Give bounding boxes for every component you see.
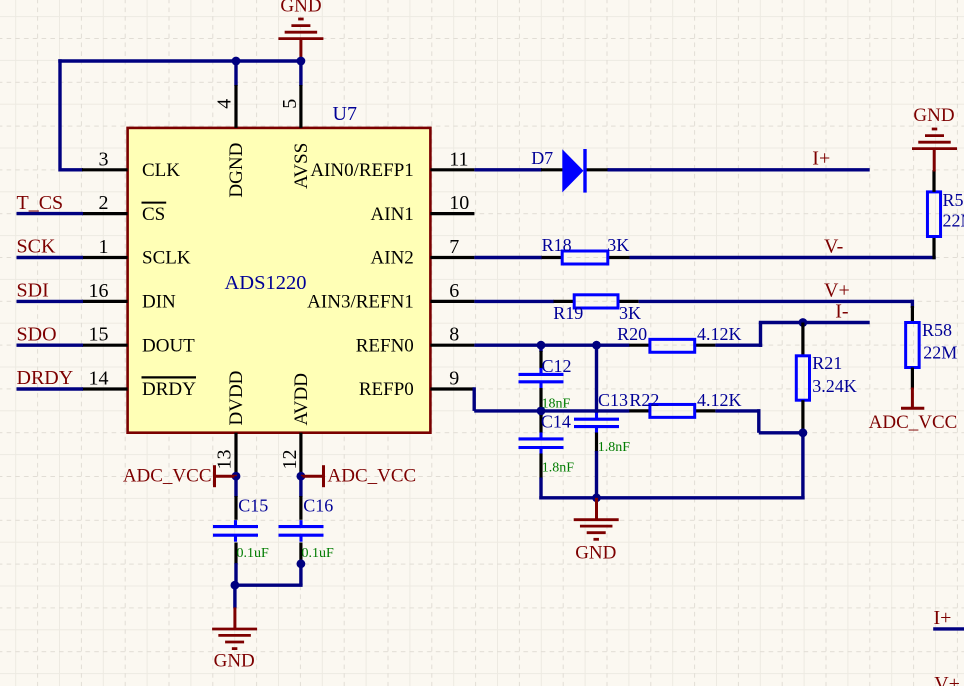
- pin 4 DGND: [234, 85, 237, 128]
- wire: [608, 168, 870, 171]
- wire: [911, 300, 914, 308]
- svg-text:C16: C16: [303, 496, 333, 516]
- svg-text:GND: GND: [913, 105, 954, 126]
- resistor R57 22M right edge: [932, 237, 935, 260]
- svg-text:ADS1220: ADS1220: [225, 272, 307, 294]
- pin name overline DRDY: [142, 376, 197, 378]
- svg-text:6: 6: [449, 280, 459, 302]
- node junction pin5: [297, 57, 306, 66]
- node junction R21 top: [799, 318, 808, 327]
- resistor R19 3K: [554, 300, 575, 303]
- wire: [630, 256, 936, 259]
- capacitor C14 1.8nF: [539, 411, 542, 416]
- node junction GND left: [231, 581, 240, 590]
- wire: [759, 431, 805, 434]
- svg-text:10: 10: [449, 192, 469, 214]
- svg-text:ADC_VCC: ADC_VCC: [123, 465, 212, 486]
- svg-text:11: 11: [449, 148, 468, 170]
- pin 16 DIN: [82, 300, 128, 303]
- svg-text:GND: GND: [575, 543, 616, 564]
- svg-text:AIN3/REFN1: AIN3/REFN1: [307, 292, 414, 313]
- pin 14 DRDY: [82, 387, 128, 390]
- svg-text:DRDY: DRDY: [142, 379, 196, 400]
- wire: [801, 433, 804, 500]
- svg-text:R18: R18: [542, 235, 572, 255]
- resistor R22 4.12K: [629, 409, 650, 412]
- svg-text:REFP0: REFP0: [359, 379, 414, 400]
- wire: [17, 300, 84, 303]
- pin 2 CS: [82, 212, 128, 215]
- svg-text:I+: I+: [812, 147, 830, 169]
- wire: [17, 344, 84, 347]
- svg-text:18nF: 18nF: [542, 396, 571, 411]
- resistor R18 3K: [542, 256, 563, 259]
- pin 6 AIN3/REFN1: [430, 300, 474, 303]
- wire: [473, 387, 476, 411]
- svg-text:AIN1: AIN1: [371, 204, 414, 225]
- svg-text:ADC_VCC: ADC_VCC: [869, 412, 958, 433]
- wire: [299, 564, 302, 585]
- wire: [17, 387, 84, 390]
- svg-text:SCLK: SCLK: [142, 248, 191, 269]
- ground: [595, 498, 598, 521]
- svg-text:1.8nF: 1.8nF: [542, 460, 575, 475]
- wire: [933, 627, 964, 630]
- wire: [58, 59, 61, 171]
- node junction C14 top: [537, 407, 546, 416]
- svg-text:T_CS: T_CS: [17, 192, 64, 214]
- svg-text:AVDD: AVDD: [291, 373, 312, 425]
- ground: [278, 37, 323, 40]
- wire: [759, 321, 870, 324]
- node junction C16: [297, 559, 306, 568]
- pin 10 AIN1: [430, 212, 474, 215]
- resistor R58 22M: [911, 306, 914, 323]
- svg-text:CLK: CLK: [142, 160, 180, 181]
- svg-text:DIN: DIN: [142, 292, 176, 313]
- wire: [234, 61, 237, 86]
- svg-text:8: 8: [449, 324, 459, 346]
- svg-text:15: 15: [89, 324, 109, 346]
- wire: [58, 59, 301, 62]
- resistor R20 4.12K: [629, 344, 650, 347]
- pin 15 DOUT: [82, 344, 128, 347]
- svg-text:4.12K: 4.12K: [697, 324, 742, 344]
- svg-text:7: 7: [449, 236, 459, 258]
- pin 7 AIN2: [430, 256, 474, 259]
- wire: [715, 344, 762, 347]
- svg-text:DGND: DGND: [226, 143, 247, 198]
- pin 1 SCLK: [82, 256, 128, 259]
- capacitor C16 0.1uF: [299, 476, 302, 497]
- node junction C12 top: [537, 341, 546, 350]
- node junction pin12: [297, 472, 306, 481]
- pin 3 CLK: [82, 168, 128, 171]
- pin 13 DVDD: [234, 433, 237, 478]
- svg-text:DOUT: DOUT: [142, 335, 195, 356]
- node junction R21 bottom: [799, 428, 808, 437]
- wire: [759, 323, 762, 347]
- svg-text:AVSS: AVSS: [291, 143, 312, 189]
- pin name overline CS: [142, 202, 167, 204]
- node junction GND: [592, 493, 601, 502]
- svg-text:1.8nF: 1.8nF: [598, 440, 631, 455]
- svg-text:4.12K: 4.12K: [697, 390, 742, 410]
- svg-text:22M: 22M: [943, 210, 964, 230]
- pin 12 AVDD: [299, 433, 302, 478]
- wire: [17, 212, 84, 215]
- wire: [539, 496, 804, 499]
- svg-text:I+: I+: [934, 607, 952, 629]
- svg-text:3K: 3K: [607, 235, 629, 255]
- svg-text:U7: U7: [333, 103, 357, 125]
- svg-text:V+: V+: [824, 280, 850, 302]
- svg-text:R57: R57: [943, 190, 964, 210]
- svg-text:R20: R20: [617, 324, 647, 344]
- svg-text:SDO: SDO: [17, 323, 57, 345]
- node junction pin4: [232, 57, 241, 66]
- svg-text:R19: R19: [553, 303, 583, 323]
- svg-text:0.1uF: 0.1uF: [302, 546, 335, 561]
- svg-text:1: 1: [99, 236, 109, 258]
- power ADC_VCC right: [301, 475, 324, 478]
- wire: [757, 409, 760, 433]
- svg-text:V+: V+: [934, 673, 960, 686]
- wire: [639, 300, 913, 303]
- svg-text:5: 5: [279, 99, 301, 109]
- svg-text:C15: C15: [238, 496, 268, 516]
- svg-text:16: 16: [89, 280, 109, 302]
- svg-text:R21: R21: [812, 353, 842, 373]
- wire: [474, 409, 629, 412]
- svg-text:AIN0/REFP1: AIN0/REFP1: [310, 160, 413, 181]
- svg-text:C13: C13: [598, 390, 628, 410]
- svg-text:ADC_VCC: ADC_VCC: [328, 465, 417, 486]
- svg-text:13: 13: [213, 450, 235, 470]
- wire: [474, 300, 554, 303]
- svg-text:9: 9: [449, 368, 459, 390]
- svg-text:22M: 22M: [923, 342, 957, 362]
- svg-text:SDI: SDI: [17, 280, 49, 302]
- capacitor C12 18nF: [539, 345, 542, 352]
- svg-text:12: 12: [279, 450, 301, 470]
- pin 9 REFP0: [430, 387, 474, 390]
- svg-text:3.24K: 3.24K: [812, 376, 857, 396]
- svg-text:CS: CS: [142, 204, 165, 225]
- svg-text:I-: I-: [835, 300, 848, 322]
- svg-text:R22: R22: [629, 390, 659, 410]
- svg-text:REFN0: REFN0: [356, 335, 414, 356]
- wire: [474, 344, 629, 347]
- wire: [474, 168, 542, 171]
- svg-text:0.1uF: 0.1uF: [237, 546, 270, 561]
- svg-text:AIN2: AIN2: [371, 248, 414, 269]
- svg-text:R58: R58: [922, 320, 952, 340]
- wire: [60, 168, 83, 171]
- svg-text:C12: C12: [542, 356, 572, 376]
- svg-text:3: 3: [99, 148, 109, 170]
- power ADC_VCC below R58: [911, 388, 914, 409]
- op-amp U7 ADS1220 IC body: [128, 128, 431, 433]
- node junction pin13: [232, 472, 241, 481]
- node junction C13 top: [592, 341, 601, 350]
- svg-text:GND: GND: [280, 0, 321, 17]
- ground: [933, 149, 936, 172]
- pin 11 AIN0/REFP1: [430, 168, 474, 171]
- svg-text:D7: D7: [531, 148, 553, 168]
- power ADC_VCC left: [215, 475, 238, 478]
- diode D7: [541, 168, 563, 171]
- svg-text:V-: V-: [824, 236, 843, 258]
- svg-text:GND: GND: [214, 650, 255, 671]
- capacitor C15 0.1uF: [234, 476, 237, 497]
- svg-text:DVDD: DVDD: [226, 371, 247, 426]
- svg-text:SCK: SCK: [17, 236, 56, 258]
- ground: [233, 585, 236, 608]
- svg-text:14: 14: [89, 368, 109, 390]
- svg-text:2: 2: [99, 192, 109, 214]
- pin 5 AVSS: [299, 85, 302, 128]
- wire: [235, 584, 303, 587]
- wire: [299, 61, 302, 86]
- svg-text:DRDY: DRDY: [17, 367, 74, 389]
- svg-text:C14: C14: [541, 412, 571, 432]
- resistor R21 3.24K: [801, 323, 804, 356]
- svg-text:3K: 3K: [619, 303, 641, 323]
- pin 8 REFN0: [430, 344, 474, 347]
- wire: [715, 409, 760, 412]
- wire: [17, 256, 84, 259]
- svg-text:4: 4: [213, 99, 235, 109]
- capacitor C13 1.8nF: [595, 345, 598, 413]
- wire: [474, 256, 542, 259]
